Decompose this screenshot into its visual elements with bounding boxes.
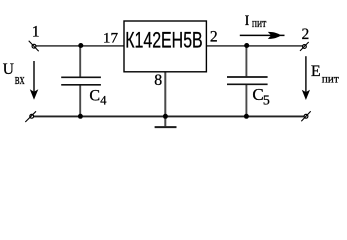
svg-text:К142ЕН5В: К142ЕН5В xyxy=(125,28,203,53)
svg-text:4: 4 xyxy=(100,93,107,107)
svg-text:I: I xyxy=(245,13,250,29)
svg-text:1: 1 xyxy=(32,24,40,41)
svg-text:пит: пит xyxy=(322,73,339,85)
svg-text:2: 2 xyxy=(302,26,310,43)
svg-text:2: 2 xyxy=(210,28,218,45)
svg-text:E: E xyxy=(311,63,321,80)
svg-text:вх: вх xyxy=(15,72,25,88)
svg-text:C: C xyxy=(89,87,100,104)
svg-text:U: U xyxy=(3,61,14,78)
svg-text:8: 8 xyxy=(154,72,162,89)
svg-text:5: 5 xyxy=(263,93,270,108)
svg-text:17: 17 xyxy=(103,30,119,46)
svg-text:пит: пит xyxy=(252,16,267,30)
